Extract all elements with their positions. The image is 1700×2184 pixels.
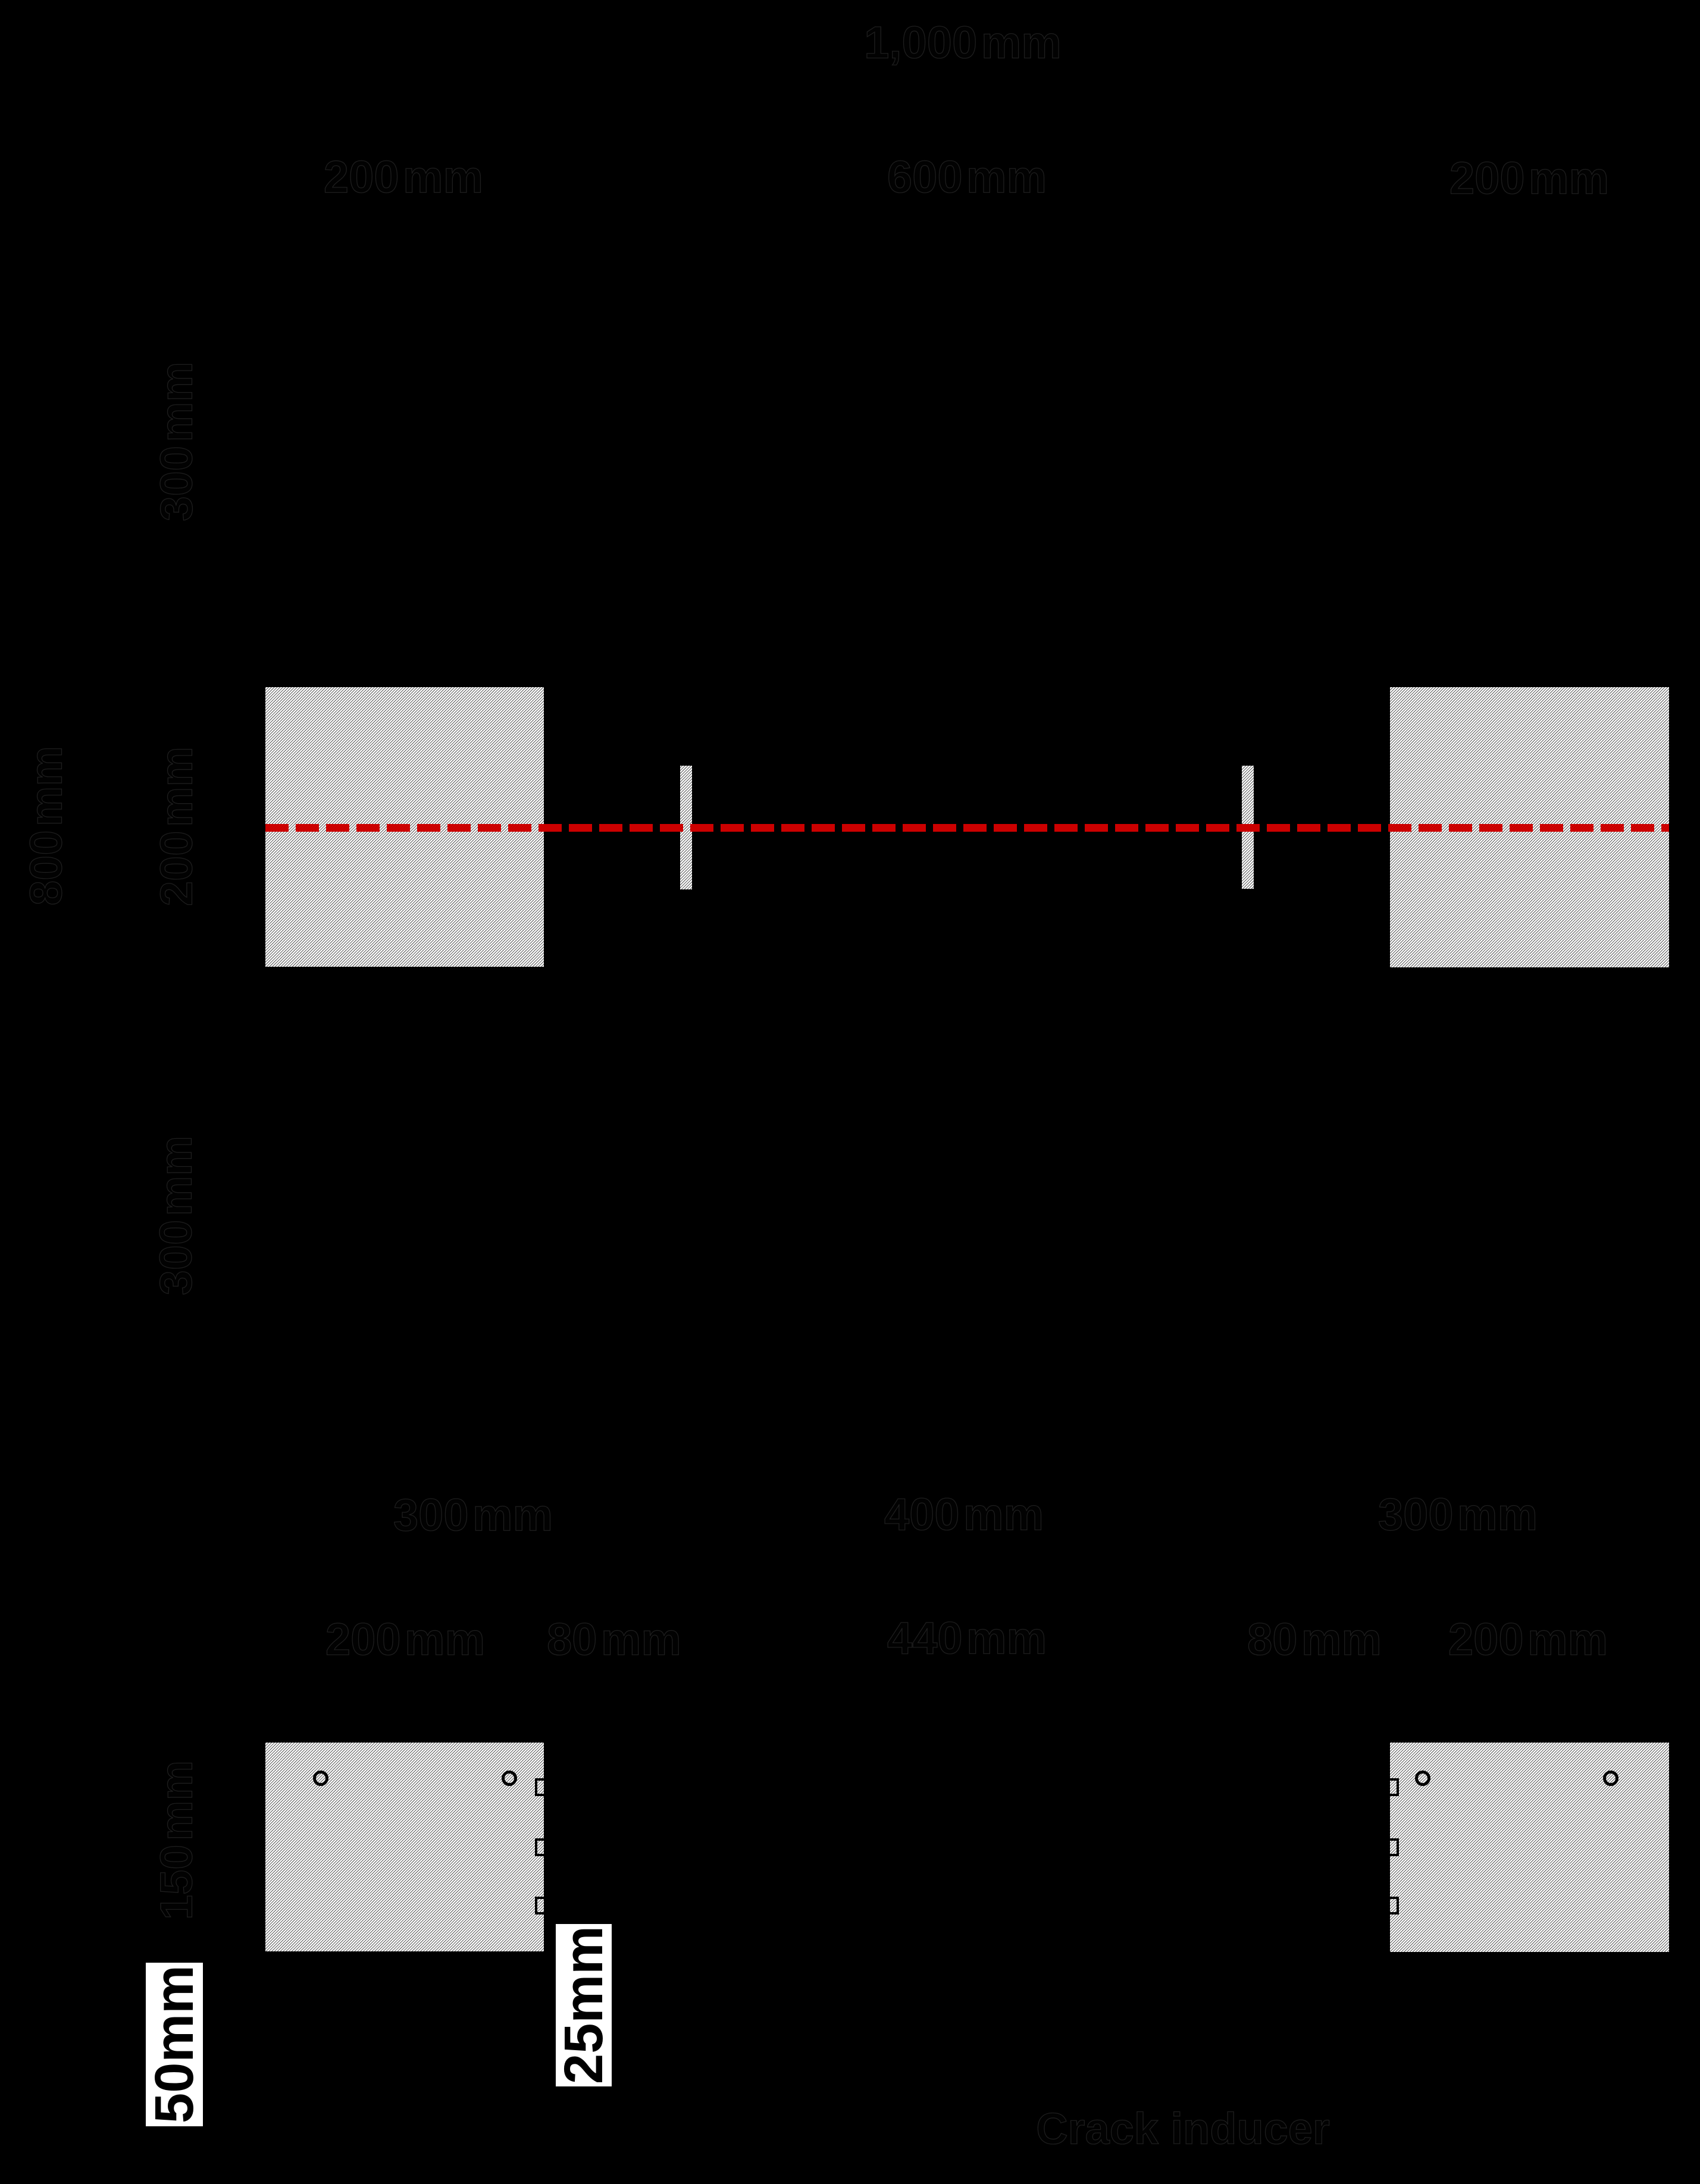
left crack inducer bar (hatched) xyxy=(680,766,692,889)
svg-text:440 mm: 440 mm xyxy=(887,1613,1047,1664)
svg-text:50mm: 50mm xyxy=(144,1965,205,2123)
upper-left hatched concrete slab (plan) xyxy=(265,687,544,967)
edge sockets on lower-right slab left face xyxy=(1382,1779,1398,1795)
svg-text:800 mm: 800 mm xyxy=(21,746,72,905)
svg-text:300 mm: 300 mm xyxy=(151,1136,202,1295)
svg-text:600 mm: 600 mm xyxy=(887,152,1047,203)
svg-text:Crack inducer: Crack inducer xyxy=(1036,2104,1330,2154)
svg-text:200 mm: 200 mm xyxy=(152,747,202,906)
right crack inducer bar (hatched) xyxy=(1242,766,1254,889)
svg-text:200 mm: 200 mm xyxy=(325,1615,485,1665)
svg-text:200 mm: 200 mm xyxy=(1449,153,1609,204)
bar holes in lower-right slab xyxy=(1417,1772,1429,1785)
white boxed label 50mm (rotated) xyxy=(146,1963,203,2126)
svg-text:1,000 mm: 1,000 mm xyxy=(864,18,1062,68)
upper-right hatched concrete slab (plan) xyxy=(1390,687,1669,967)
svg-text:300 mm: 300 mm xyxy=(1378,1490,1538,1540)
svg-text:80 mm: 80 mm xyxy=(547,1615,681,1665)
white boxed label 25mm (rotated) xyxy=(556,1924,612,2086)
svg-text:200 mm: 200 mm xyxy=(324,152,483,203)
svg-text:400 mm: 400 mm xyxy=(884,1490,1044,1540)
svg-text:300 mm: 300 mm xyxy=(152,362,202,521)
svg-text:300 mm: 300 mm xyxy=(393,1490,553,1541)
edge sockets on lower-left slab right face xyxy=(536,1779,552,1795)
svg-text:80 mm: 80 mm xyxy=(1247,1615,1382,1665)
svg-text:25mm: 25mm xyxy=(553,1926,614,2084)
svg-text:150 mm: 150 mm xyxy=(152,1760,202,1920)
bar holes in lower-left slab xyxy=(315,1772,327,1785)
lower-left hatched slab (elevation) xyxy=(265,1743,544,1951)
svg-text:200 mm: 200 mm xyxy=(1448,1615,1608,1665)
red dashed crack/joint centreline xyxy=(265,824,1669,832)
lower-right hatched slab (elevation) xyxy=(1390,1743,1669,1952)
